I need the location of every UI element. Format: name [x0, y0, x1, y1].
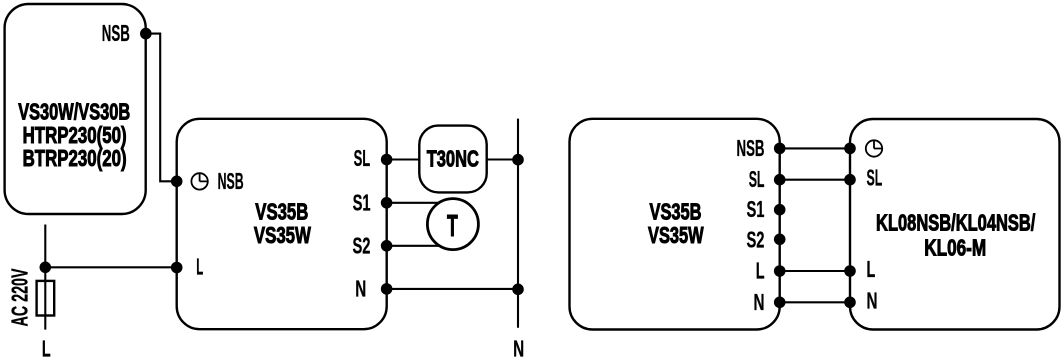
actuator box T30NC	[419, 126, 486, 193]
svg-text:L: L	[196, 254, 203, 280]
terminal dot S2 (receiver 2)	[774, 234, 786, 246]
terminal dot N (receiver 2)	[774, 297, 786, 309]
svg-text:SL: SL	[749, 166, 765, 192]
svg-text:AC 220V: AC 220V	[7, 268, 33, 326]
svg-text:NSB: NSB	[102, 20, 130, 46]
svg-text:KL06-M: KL06-M	[924, 235, 986, 261]
junction dot N wire	[512, 284, 524, 296]
terminal dot NSB (wiring centre)	[844, 143, 856, 155]
terminal dot SL (wiring centre)	[844, 174, 856, 186]
wire T30NC to N line	[487, 158, 518, 160]
svg-text:S1: S1	[353, 189, 371, 215]
wire SL to T30NC	[387, 158, 420, 160]
svg-text:VS35B: VS35B	[255, 198, 308, 224]
terminal dot L (receiver 2)	[774, 265, 786, 277]
svg-text:N: N	[513, 336, 524, 360]
receiver box VS35B/VS35W (right diagram)	[570, 119, 780, 330]
receiver box VS35B/VS35W (left diagram)	[177, 119, 387, 329]
svg-text:L: L	[867, 256, 876, 282]
svg-text:T: T	[447, 208, 458, 243]
svg-text:VS35W: VS35W	[648, 222, 704, 248]
wiring centre box KL08NSB	[850, 119, 1060, 330]
svg-text:SL: SL	[867, 165, 883, 191]
wire N receiver2 to wiring centre	[780, 301, 850, 303]
terminal dot NSB (receiver 2)	[774, 143, 786, 155]
terminal dot SL (receiver 2)	[774, 174, 786, 186]
wire NSB receiver2 to wiring centre	[780, 147, 850, 149]
terminal dot N (receiver)	[381, 283, 393, 295]
svg-text:N: N	[867, 287, 878, 313]
svg-text:VS35W: VS35W	[254, 222, 311, 248]
terminal dot S1 (receiver 2)	[774, 204, 786, 216]
terminal dot N (wiring centre)	[844, 297, 856, 309]
wire L receiver2 to wiring centre	[780, 270, 850, 272]
svg-text:BTRP230(20): BTRP230(20)	[23, 145, 127, 171]
wire S2 to thermostat sensor	[387, 245, 446, 247]
svg-text:S2: S2	[353, 232, 371, 258]
terminal dot L (receiver)	[171, 262, 183, 274]
clock icon (receiver NSB)	[191, 173, 207, 189]
wire N vertical	[517, 119, 519, 328]
svg-text:T30NC: T30NC	[427, 146, 479, 172]
svg-text:KL08NSB/KL04NSB/: KL08NSB/KL04NSB/	[876, 209, 1036, 235]
svg-text:SL: SL	[354, 145, 371, 171]
wire N receiver to N line	[387, 288, 518, 290]
svg-text:L: L	[42, 336, 51, 360]
svg-text:L: L	[756, 258, 765, 284]
svg-text:HTRP230(50): HTRP230(50)	[23, 122, 127, 148]
svg-text:S2: S2	[747, 226, 765, 252]
svg-text:VS35B: VS35B	[650, 198, 702, 224]
wire L supply to receiver	[45, 266, 176, 268]
wire L supply vertical	[44, 225, 46, 330]
svg-text:VS30W/VS30B: VS30W/VS30B	[18, 98, 130, 124]
terminal dot S1 (receiver)	[381, 197, 393, 209]
wire S1 to thermostat sensor	[387, 202, 446, 204]
sensor circle T	[427, 199, 478, 250]
svg-text:N: N	[754, 289, 765, 315]
svg-text:NSB: NSB	[737, 135, 765, 161]
svg-text:N: N	[355, 275, 366, 301]
junction dot L supply	[40, 262, 52, 274]
junction dot NSB on thermostat edge	[140, 28, 152, 40]
wire NSB: thermostat to receiver VS35B	[146, 34, 177, 182]
thermostat box VS30W/VS30B	[5, 4, 146, 214]
terminal dot NSB (receiver)	[171, 176, 183, 188]
wire SL receiver2 to wiring centre	[780, 179, 850, 181]
fuse	[37, 281, 55, 316]
svg-text:S1: S1	[747, 196, 765, 222]
clock icon (wiring centre)	[866, 140, 882, 156]
svg-text:NSB: NSB	[218, 168, 244, 194]
terminal dot S2 (receiver)	[381, 240, 393, 252]
junction dot T30NC-N	[512, 154, 524, 166]
terminal dot SL (receiver)	[381, 154, 393, 166]
terminal dot L (wiring centre)	[844, 265, 856, 277]
